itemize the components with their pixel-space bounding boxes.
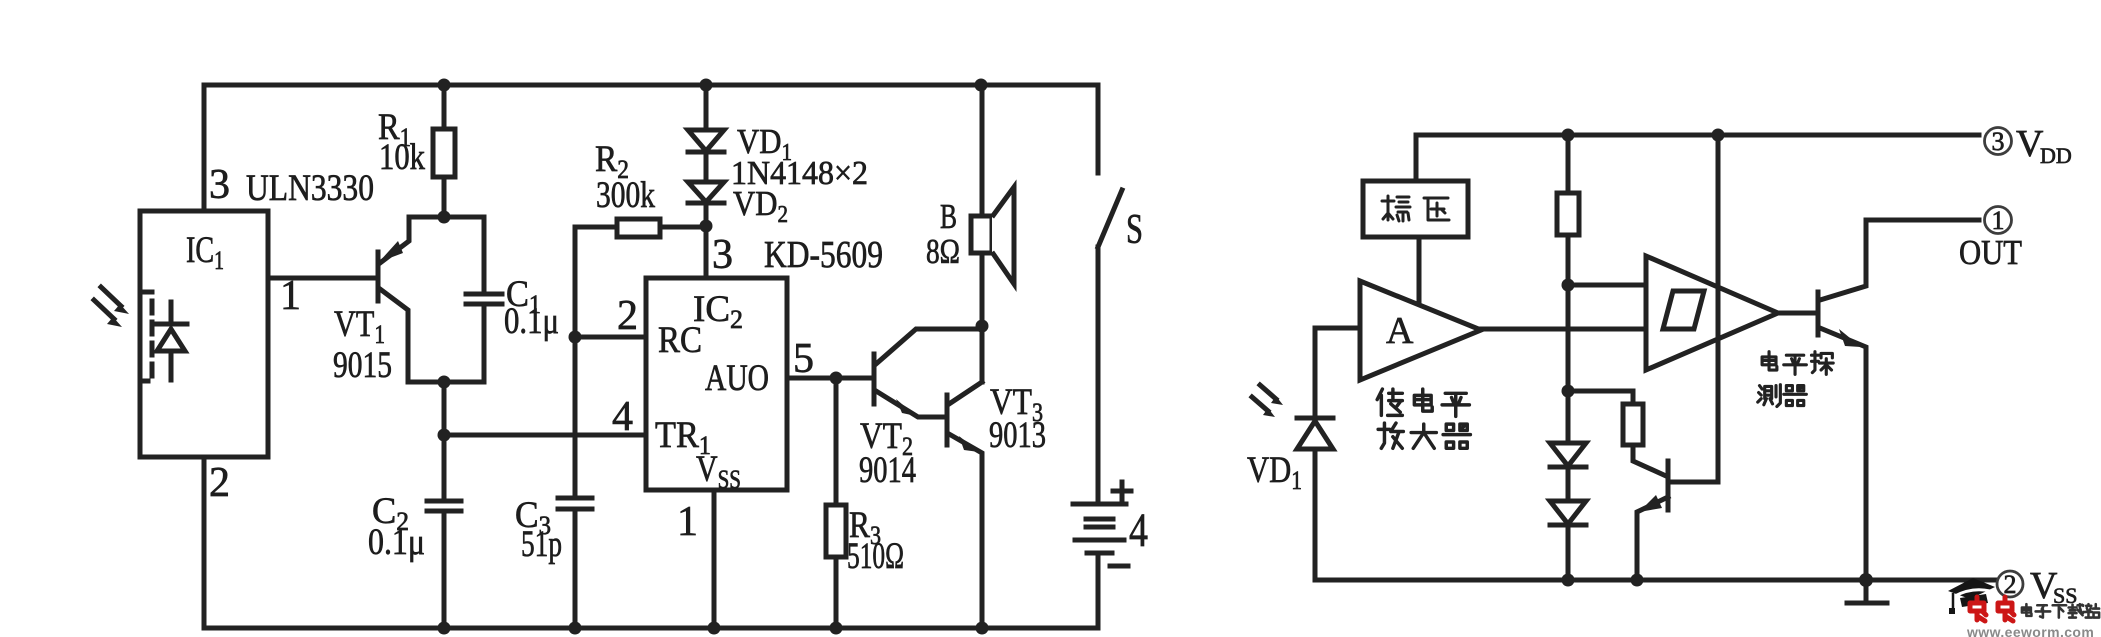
label 8ohm	[926, 232, 960, 271]
wire: photodiode branch to A input	[1315, 328, 1360, 416]
wire: VT1 collector rail to C1 bottom	[408, 304, 484, 382]
light arrows into VD1	[1252, 385, 1283, 417]
label VD2	[733, 184, 788, 228]
pin label TR1	[655, 415, 711, 460]
label 1N4148x2	[731, 155, 868, 192]
terminal 1 OUT	[1985, 206, 2012, 235]
diode D3 (chain lower)	[1550, 501, 1586, 580]
speaker B 8ohm	[971, 187, 1014, 284]
svg-text:OUT: OUT	[1959, 233, 2022, 272]
output transistor (right circuit)	[1818, 220, 1979, 581]
svg-text:1: 1	[677, 499, 698, 545]
photodiode VD1 (right)	[1297, 418, 1333, 580]
label 4 (battery)	[1129, 504, 1148, 557]
svg-text:51p: 51p	[521, 524, 562, 565]
label 9013	[989, 415, 1046, 456]
label R2	[595, 139, 629, 184]
svg-text:0.1μ: 0.1μ	[368, 522, 425, 563]
wire: node down to diode chain	[1566, 285, 1571, 443]
wire: VT1 collector node down to TR node	[442, 382, 447, 435]
svg-text:9015: 9015	[333, 345, 392, 386]
label VT2	[860, 416, 913, 461]
wire: node to IC2 pin 3	[704, 226, 709, 278]
diode VD1 (1N4148)	[688, 85, 724, 182]
wire: node to schmitt upper input	[1568, 283, 1646, 288]
terminal 2 VSS	[1997, 565, 2077, 608]
junction: top rail at speaker	[975, 79, 988, 92]
bias resistor (vertical, right circuit)	[1557, 135, 1579, 285]
svg-text:8Ω: 8Ω	[926, 232, 960, 271]
junction: AUO / R3 node	[830, 372, 843, 385]
wire: switch to battery	[1096, 247, 1101, 504]
label R3	[849, 505, 881, 550]
svg-text:2: 2	[209, 460, 230, 506]
transistor VT3 (9013 NPN)	[947, 382, 982, 628]
svg-text:DD: DD	[2040, 143, 2072, 168]
wire: node to base resistor	[1568, 391, 1633, 404]
pin 1 label (IC1)	[280, 273, 301, 319]
junction: RC node	[569, 331, 582, 344]
resistor R2 300k	[575, 219, 706, 237]
svg-text:B: B	[940, 197, 957, 236]
label KD-5609	[764, 234, 883, 276]
capacitor C3 51p	[558, 337, 592, 628]
photodiode inside IC1	[155, 302, 187, 380]
junction: resistor bottom node	[1562, 279, 1575, 292]
label VD1 (right)	[1247, 450, 1302, 495]
svg-text:3: 3	[209, 162, 230, 208]
resistor R3 510ohm	[826, 378, 846, 628]
svg-text:300k: 300k	[596, 175, 655, 216]
svg-text:KD-5609: KD-5609	[764, 234, 883, 276]
diode VD2 (1N4148)	[688, 182, 724, 226]
transistor VT1 (9015 PNP)	[378, 217, 409, 382]
junction: VT1 collector node	[438, 376, 451, 389]
junction: R1 bottom node	[438, 211, 451, 224]
wire: bottom ground rail (left circuit)	[204, 457, 1098, 628]
svg-text:10k: 10k	[379, 137, 425, 178]
wire: speaker bottom to VT2/VT3 collectors	[980, 253, 985, 382]
wire: R2 left down to RC node	[573, 227, 578, 337]
svg-text:1: 1	[1992, 206, 2005, 235]
label R1	[378, 107, 411, 152]
svg-text:S: S	[1126, 207, 1143, 253]
wire: IC2 pin 1 to ground rail	[712, 490, 717, 628]
label IC1	[186, 230, 224, 275]
watermark graduation cap	[1948, 578, 1995, 614]
pin label AUO	[705, 358, 769, 399]
wire: regulator to amplifier A	[1417, 237, 1422, 303]
terminal 3 VDD	[1985, 123, 2072, 168]
svg-text:9014: 9014	[859, 450, 916, 491]
junction: top rail at R1	[438, 79, 451, 92]
svg-text:VD1: VD1	[1247, 450, 1302, 495]
label IC2	[693, 289, 743, 334]
photo-IC U1 box IC1	[140, 211, 268, 457]
label 10k	[379, 137, 425, 178]
light arrows into IC1	[94, 287, 129, 327]
battery plus sign	[1113, 482, 1131, 500]
label VT1	[334, 304, 385, 349]
svg-text:AUO: AUO	[705, 358, 769, 399]
svg-text:4: 4	[1129, 504, 1148, 557]
regulator block (wen ya)	[1363, 181, 1468, 237]
transistor VT2 (9014 NPN)	[874, 329, 979, 417]
junction: VD2 / R2 / IC2 pin3 node	[700, 220, 713, 233]
svg-text:4: 4	[612, 394, 633, 440]
wire: TR node to IC2 pin 4	[444, 433, 646, 438]
svg-text:2: 2	[617, 293, 638, 339]
label 300k	[596, 175, 655, 216]
label 0.1u (C2)	[368, 522, 425, 563]
capacitor C2 0.1u	[427, 435, 461, 628]
label VT3	[990, 382, 1043, 427]
schmitt trigger (level detector)	[1646, 256, 1778, 370]
op-amp A (low level amplifier)	[1360, 281, 1481, 380]
junction: bottom rail at VT3 emitter	[976, 622, 989, 635]
junction: top rail at VD1	[700, 79, 713, 92]
capacitor C1 0.1u	[466, 294, 502, 304]
label C1	[506, 274, 541, 319]
wire: top supply rail (left circuit)	[204, 85, 1098, 211]
wire: IC2 pin 5 AUO to VT2 base	[787, 376, 874, 381]
pin 4 label (IC2)	[612, 394, 633, 440]
wire: VT1 emitter rail to C1 top	[409, 217, 484, 294]
wire: schmitt output to output transistor base	[1778, 311, 1818, 316]
battery minus sign	[1110, 564, 1128, 569]
pin 2 label (IC2)	[617, 293, 638, 339]
pin 5 label (IC2)	[793, 336, 814, 382]
svg-text:www.eeworm.com: www.eeworm.com	[1966, 624, 2094, 637]
label amplifier (fang da qi)	[1378, 423, 1470, 448]
label 9014	[859, 450, 916, 491]
dashed junction box of photodiode	[140, 292, 152, 381]
label C3	[515, 495, 551, 540]
label low-level (di dian ping)	[1377, 389, 1469, 416]
label detector (ce qi)	[1758, 385, 1807, 407]
pin label RC	[658, 320, 702, 361]
IC U2 box IC2 KD-5609	[646, 278, 787, 490]
junction: ground rail at diode chain	[1562, 574, 1575, 587]
pin label VSS	[696, 449, 741, 494]
diode D2 (chain upper)	[1550, 443, 1586, 501]
battery 4	[1073, 504, 1126, 628]
label level detector (dian ping tan)	[1762, 352, 1833, 375]
svg-text:3: 3	[712, 232, 733, 278]
base resistor (small, right circuit)	[1623, 404, 1666, 476]
wire: RC node to IC2 pin 2	[575, 335, 646, 340]
junction: ground rail at output transistor emitter	[1859, 573, 1873, 587]
watermark url	[1966, 624, 2094, 637]
label B	[940, 197, 957, 236]
junction: diode chain top node	[1562, 385, 1575, 398]
wire: A output to schmitt input	[1481, 327, 1646, 332]
junction: top rail at detector feed line	[1712, 129, 1725, 142]
ground symbol	[1847, 580, 1887, 603]
resistor R1 10k	[433, 85, 455, 217]
watermark site name (dian zi xia zai zhan)	[2022, 604, 2099, 617]
junction: ground rail at small transistor emitter	[1631, 574, 1644, 587]
svg-text:ULN3330: ULN3330	[246, 168, 374, 209]
label 510ohm	[847, 536, 904, 577]
label 0.1u (C1)	[504, 301, 559, 342]
svg-text:0.1μ: 0.1μ	[504, 301, 559, 342]
label VD1	[737, 122, 792, 166]
junction: bottom rail at C2	[438, 622, 451, 635]
wire: feed line through schmitt down to transistor collector	[1670, 135, 1718, 482]
svg-text:A: A	[1386, 310, 1414, 352]
label OUT	[1959, 233, 2022, 272]
svg-text:RC: RC	[658, 320, 702, 361]
switch S	[1098, 85, 1122, 247]
junction: C2 / TR node	[438, 429, 451, 442]
junction: bottom rail at C3	[569, 622, 582, 635]
small transistor Q (right circuit)	[1637, 461, 1668, 580]
pin 3 label (IC1)	[209, 162, 230, 208]
wire: speaker top from rail	[980, 85, 985, 216]
junction: top rail at bias resistor	[1562, 129, 1575, 142]
label ULN3330	[246, 168, 374, 209]
pin 3 label (IC2)	[712, 232, 733, 278]
watermark chongchong red	[1970, 597, 2014, 621]
label S	[1126, 207, 1143, 253]
svg-text:9013: 9013	[989, 415, 1046, 456]
svg-text:3: 3	[1992, 127, 2005, 156]
svg-text:VT1: VT1	[334, 304, 385, 349]
wire: IC1 pin1 to VT1 base	[268, 276, 378, 281]
wire: bottom ground rail (right circuit)	[1315, 578, 1995, 583]
pin 1 label (IC2)	[677, 499, 698, 545]
pin 2 label (IC1)	[209, 460, 230, 506]
label 51p (C3)	[521, 524, 562, 565]
wire: top supply rail (right circuit) to VDD	[1416, 135, 1979, 181]
label 9015	[333, 345, 392, 386]
svg-text:5: 5	[793, 336, 814, 382]
svg-text:510Ω: 510Ω	[847, 536, 904, 577]
junction: bottom rail at R3	[830, 622, 843, 635]
label C2	[372, 491, 409, 536]
junction: VT2 collector node	[976, 320, 989, 333]
junction: bottom rail at IC2 pin 1	[708, 622, 721, 635]
